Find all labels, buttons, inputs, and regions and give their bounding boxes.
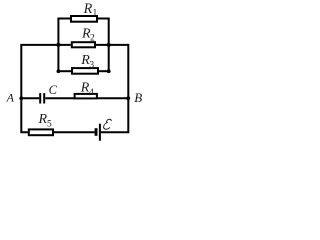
- wire R1 right lead and right inner rail: [98, 19, 109, 72]
- capacitor C left plate: [39, 93, 41, 103]
- junction dot cross right: [107, 43, 111, 47]
- battery long thin plate: [99, 124, 101, 141]
- wire R3 left lead: [58, 70, 72, 72]
- svg-text:2: 2: [90, 34, 95, 44]
- EMF script E label: [103, 119, 112, 129]
- svg-text:R: R: [38, 112, 48, 127]
- junction dot cross left: [56, 43, 60, 47]
- wire R2 left lead, outer left rail, R5 left lead: [21, 45, 71, 132]
- wire capacitor to R4: [45, 97, 74, 99]
- wire R5 right lead to battery: [53, 131, 95, 133]
- resistor R5: [29, 129, 53, 135]
- wire R4 to node B: [97, 97, 128, 99]
- svg-text:C: C: [49, 83, 58, 97]
- node A junction dot: [19, 96, 23, 100]
- resistor R2: [72, 42, 95, 47]
- svg-text:5: 5: [47, 120, 52, 130]
- node B junction dot: [126, 96, 130, 100]
- svg-text:3: 3: [89, 61, 94, 71]
- svg-text:R: R: [83, 1, 93, 17]
- resistor R3: [72, 68, 98, 74]
- svg-text:A: A: [6, 90, 15, 104]
- capacitor C right plate: [43, 93, 45, 103]
- wire R1 left lead and left inner rail: [58, 19, 70, 72]
- svg-text:1: 1: [93, 8, 98, 18]
- wire R3 right lead: [98, 70, 109, 72]
- wire node A to capacitor: [21, 97, 39, 99]
- wire R2 right lead, outer right rail, battery right lead: [96, 45, 128, 132]
- junction dot R3 right: [107, 69, 111, 73]
- resistor R1: [71, 16, 97, 22]
- battery short thick plate: [95, 128, 98, 136]
- junction dot R3 left: [57, 69, 61, 73]
- svg-text:4: 4: [89, 88, 94, 98]
- svg-text:B: B: [134, 90, 142, 105]
- resistor R4: [75, 94, 97, 99]
